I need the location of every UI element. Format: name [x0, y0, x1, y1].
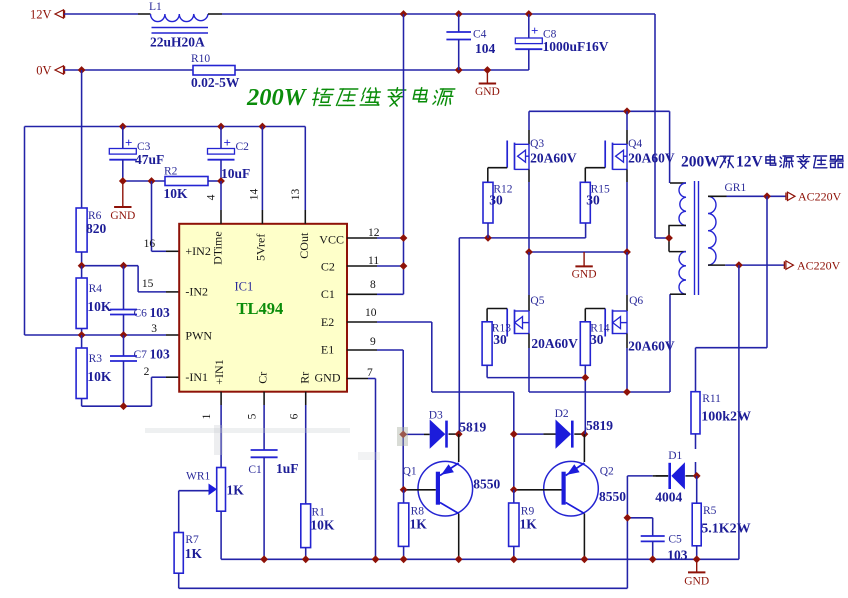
value label 30 of R14 [590, 332, 604, 347]
svg-text:R3: R3 [89, 353, 103, 365]
svg-text:103: 103 [667, 548, 688, 563]
svg-text:12: 12 [368, 227, 380, 239]
resistor R5 [692, 476, 716, 559]
svg-text:Q6: Q6 [629, 295, 643, 307]
svg-text:C6: C6 [134, 308, 148, 320]
transformer label 200W dual 12V transformer [681, 154, 843, 171]
value label 47uF [135, 152, 164, 167]
diode D2 [514, 408, 585, 449]
IC pin name VCC [319, 232, 344, 246]
wire AC220V top [727, 195, 787, 197]
resistor R4 [76, 266, 102, 335]
ground symbol near C3 [110, 181, 135, 222]
svg-text:Q5: Q5 [530, 295, 544, 307]
svg-text:12V: 12V [30, 8, 52, 22]
value label 5.1K2W [701, 522, 750, 537]
svg-text:+: + [531, 23, 538, 38]
wire pin16 net [152, 181, 180, 251]
svg-text:GR1: GR1 [725, 182, 747, 194]
junction D2 anode/pin10 riser [510, 430, 518, 438]
svg-text:+IN1: +IN1 [212, 359, 226, 384]
pin number 16 [144, 238, 156, 250]
value label 820 [86, 221, 107, 236]
svg-text:22uH20A: 22uH20A [150, 35, 205, 50]
IC pin name -IN1 [185, 370, 208, 384]
IC pin name GND [315, 371, 341, 385]
junction R2/C2/pin4 [217, 177, 225, 185]
junction row/C6 [120, 262, 128, 270]
svg-text:104: 104 [475, 41, 496, 56]
wire WR1 wiper to R7 [179, 491, 209, 533]
junction C5/return riser [624, 514, 632, 522]
svg-text:GND: GND [684, 576, 709, 588]
resistor R6 [76, 70, 102, 266]
value label 20A60V of Q5 [531, 336, 578, 351]
svg-text:1K: 1K [227, 483, 245, 498]
value label 10K of R4 [87, 299, 112, 314]
transistor Q2 [514, 434, 614, 559]
svg-text:D3: D3 [429, 410, 443, 422]
capacitor C1 [248, 450, 277, 559]
pin number 8 [370, 279, 376, 291]
IC pin name -IN2 [185, 284, 208, 298]
junction D2 cathode [581, 430, 589, 438]
diode D3 [403, 410, 459, 449]
svg-text:0.02-5W: 0.02-5W [191, 75, 240, 90]
junction R12 bottom [484, 234, 492, 242]
wire 12V drop to transformer center tap [655, 14, 669, 238]
svg-text:16: 16 [144, 238, 156, 250]
svg-text:C4: C4 [473, 29, 487, 41]
value label 8550 of Q2 [599, 489, 626, 504]
svg-text:8: 8 [370, 279, 376, 291]
svg-text:8550: 8550 [599, 489, 626, 504]
junction 0V/C4 [455, 66, 463, 74]
wire AC220V bottom [725, 264, 784, 266]
wire bottom rail [221, 558, 739, 560]
resistor R8 [398, 490, 424, 560]
svg-text:E2: E2 [321, 315, 334, 329]
junction Q1 base/R8 [400, 486, 408, 494]
IC pin name C2 [321, 259, 335, 273]
junction Q2 collector/rail [581, 555, 589, 563]
IC pin name E1 [321, 343, 334, 357]
resistor R10 [191, 53, 235, 75]
value label 10K [164, 186, 189, 201]
value label 5819 of D2 [586, 418, 613, 433]
wire R13R14 row to D2 [487, 378, 585, 435]
power port AC220V bottom [784, 259, 840, 273]
wire R7 to lower return rail [179, 476, 668, 588]
junction Q4 source [623, 248, 631, 256]
junction Q3 source [525, 248, 533, 256]
value label 1uF [276, 461, 299, 476]
svg-text:Q1: Q1 [403, 466, 417, 478]
junction C3/GND/R2 [119, 177, 127, 185]
svg-text:3: 3 [151, 323, 157, 335]
transistor Q5 [487, 252, 545, 392]
value label 10K of R3 [87, 369, 112, 384]
svg-text:R11: R11 [702, 393, 721, 405]
junction 12V/C8 [525, 10, 533, 18]
pin number 3 [151, 323, 157, 335]
junction C5/rail [649, 555, 657, 563]
IC pin name +IN1 [212, 359, 226, 384]
title 200W stabilized inverter power supply [246, 84, 455, 111]
junction 12V/C4 [455, 10, 463, 18]
svg-text:15: 15 [142, 278, 154, 290]
svg-text:1K: 1K [520, 517, 538, 532]
transistor Q3 [488, 111, 545, 252]
junction Q4 drain rail [623, 107, 631, 115]
svg-text:TL494: TL494 [237, 299, 284, 318]
svg-text:PWN: PWN [185, 328, 212, 342]
wire AC top riser to R11 [696, 196, 768, 391]
power port AC220V top [786, 190, 842, 204]
svg-text:Q3: Q3 [530, 138, 544, 150]
capacitor C2 [208, 127, 250, 182]
svg-text:+: + [224, 135, 231, 150]
svg-text:Q4: Q4 [628, 138, 642, 150]
pin number 15 [142, 278, 154, 290]
svg-text:WR1: WR1 [186, 471, 211, 483]
IC designator IC1 [235, 279, 254, 293]
svg-text:9: 9 [370, 336, 376, 348]
resistor R14 [580, 322, 609, 378]
svg-text:C1: C1 [321, 287, 335, 301]
value label 1K of WR1 [227, 483, 245, 498]
svg-text:5.1K2W: 5.1K2W [701, 522, 750, 537]
svg-text:5819: 5819 [459, 420, 486, 435]
svg-text:0V: 0V [36, 64, 51, 78]
wire AC bottom riser to rail [738, 265, 740, 559]
junction D3 cathode [455, 430, 463, 438]
svg-text:1K: 1K [185, 546, 203, 561]
value label 103 of C7 [150, 347, 171, 362]
svg-text:R2: R2 [164, 166, 178, 178]
value label 30 of R15 [586, 193, 600, 208]
svg-text:D1: D1 [668, 450, 682, 462]
wire drain rail Q3/Q4 [529, 111, 670, 183]
svg-text:30: 30 [493, 332, 507, 347]
svg-text:1K: 1K [410, 517, 428, 532]
pin number 12 [368, 227, 380, 239]
pin number 6 [289, 413, 301, 419]
svg-text:10: 10 [365, 307, 377, 319]
junction C6/C7 [120, 331, 128, 339]
wire row to pin15 [82, 266, 180, 292]
junction 0V/GND [484, 66, 492, 74]
svg-text:103: 103 [150, 305, 171, 320]
value label 1K of R8 [410, 517, 428, 532]
junction R9/rail [510, 555, 518, 563]
junction pin12/riser [400, 234, 408, 242]
wire COut riser pin13 [304, 127, 306, 224]
svg-text:2: 2 [144, 366, 150, 378]
value label 20A60V of Q6 [628, 339, 675, 354]
svg-text:Q2: Q2 [600, 466, 614, 478]
svg-text:10K: 10K [87, 369, 112, 384]
wire WR1 bottom to rail [220, 511, 222, 559]
value label 0.02-5W [191, 75, 240, 90]
resistor R7 [174, 533, 199, 574]
transistor Q1 [403, 434, 473, 559]
capacitor C8 [515, 14, 556, 70]
pin number 14 [249, 189, 261, 201]
resistor R1 [301, 504, 325, 559]
transformer GR1 secondary [708, 182, 746, 265]
pin number 13 [290, 189, 302, 201]
wire pin1 to WR1 [220, 392, 222, 468]
svg-text:GND: GND [315, 371, 341, 385]
svg-text:E1: E1 [321, 343, 334, 357]
wire 0V rail left [64, 69, 193, 71]
svg-text:820: 820 [86, 221, 107, 236]
svg-text:5819: 5819 [586, 418, 613, 433]
wire pin10 E2 to Q2 base [347, 322, 514, 490]
value label 30 of R13 [493, 332, 507, 347]
wire pin9 E1 to Q1 base [347, 350, 403, 490]
value label 1000uF16V [543, 39, 609, 54]
IC pin name Rr [298, 372, 312, 384]
watermark smudges [145, 425, 408, 460]
pin number 2 [144, 366, 150, 378]
svg-text:GND: GND [572, 269, 597, 281]
value label 8550 of Q1 [473, 477, 500, 492]
svg-text:4: 4 [206, 194, 218, 200]
svg-text:GND: GND [475, 86, 500, 98]
junction R1/rail [302, 555, 310, 563]
svg-text:20A60V: 20A60V [628, 339, 675, 354]
junction AC top output [763, 192, 771, 200]
junction R8/rail [400, 555, 408, 563]
inductor L1 [149, 1, 208, 33]
junction pin11/riser [400, 262, 408, 270]
wire Q5/Q6 source line [529, 294, 670, 392]
wire 5Vref riser pin14 [261, 127, 263, 224]
wire 0V rail right [235, 69, 529, 71]
svg-text:5: 5 [247, 413, 259, 419]
resistor R12 [483, 182, 513, 238]
transformer GR1 core [695, 181, 699, 295]
svg-text:DTime: DTime [211, 231, 225, 265]
IC pin name Cr [256, 372, 270, 384]
svg-text:200W: 200W [681, 154, 720, 171]
IC pin name C1 [321, 287, 335, 301]
junction rail/C2 [217, 123, 225, 131]
transistor Q4 [585, 111, 642, 252]
pin number 9 [370, 336, 376, 348]
power port 12V [30, 8, 65, 22]
svg-text:10uF: 10uF [221, 166, 250, 181]
svg-text:GND: GND [110, 210, 135, 222]
capacitor C7 [110, 335, 147, 406]
svg-text:8550: 8550 [473, 477, 500, 492]
op-amp controller U1 TL494 body [179, 224, 347, 392]
wire pin2 net [82, 377, 180, 406]
value label 20A60V of Q4 [628, 151, 675, 166]
junction rail/C3 [119, 123, 127, 131]
value label 20A60V of Q3 [530, 151, 577, 166]
svg-text:VCC: VCC [319, 232, 344, 246]
svg-text:-IN2: -IN2 [185, 284, 208, 298]
IC value TL494 [237, 299, 284, 318]
svg-text:C2: C2 [236, 141, 250, 153]
value label 100k2W [701, 410, 751, 425]
svg-text:11: 11 [368, 255, 379, 267]
value label 103 of C5 [667, 548, 688, 563]
svg-text:7: 7 [367, 367, 373, 379]
junction R5/rail [693, 555, 701, 563]
value label 10K of R1 [310, 518, 335, 533]
value label 104 [475, 41, 496, 56]
pin number 5 [247, 413, 259, 419]
junction 0V/R6 column [78, 66, 86, 74]
capacitor C4 [446, 14, 486, 70]
transistor Q6 [585, 252, 643, 392]
resistor R3 [76, 335, 102, 406]
value label 1K of R9 [520, 517, 538, 532]
pin number 7 [367, 367, 373, 379]
junction C7/pin2 row [120, 402, 128, 410]
svg-text:IC1: IC1 [235, 279, 254, 293]
transformer GR1 primary top [668, 183, 686, 252]
junction AC bottom output [735, 261, 743, 269]
wire VCC riser pin12/pin11/pin8 [347, 14, 404, 294]
value label 4004 [655, 490, 682, 505]
junction Q2 base/R9 [510, 486, 518, 494]
junction transformer center tap [665, 234, 673, 242]
junction R14/riser [581, 374, 589, 382]
junction rail/5Vref riser [259, 123, 267, 131]
value label 10uF [221, 166, 250, 181]
value label 1K of R7 [185, 546, 203, 561]
svg-text:30: 30 [590, 332, 604, 347]
svg-text:30: 30 [586, 193, 600, 208]
resistor R9 [509, 490, 535, 560]
svg-text:+IN2: +IN2 [185, 244, 210, 258]
IC pin name 5Vref [254, 234, 268, 261]
capacitor C5 [627, 518, 682, 560]
junction pin7-riser/rail [372, 555, 380, 563]
ground symbol bottom right [684, 559, 709, 587]
IC pin name COut [297, 232, 311, 259]
svg-text:200W: 200W [246, 84, 308, 111]
svg-text:C5: C5 [668, 534, 682, 546]
svg-text:10K: 10K [87, 299, 112, 314]
junction C1/rail [260, 555, 268, 563]
svg-text:103: 103 [150, 347, 171, 362]
svg-text:+: + [125, 135, 132, 150]
wire 12V feed [64, 13, 151, 15]
value label 30 of R12 [489, 193, 503, 208]
junction Q1 collector/rail [455, 555, 463, 563]
svg-text:10K: 10K [310, 518, 335, 533]
resistor R15 [580, 182, 610, 223]
wire pin11 [347, 265, 404, 267]
svg-text:14: 14 [249, 189, 261, 201]
ground symbol near C8 [475, 70, 500, 98]
IC pin name PWN [185, 328, 212, 342]
pin number 10 [365, 307, 377, 319]
junction R4/R3 [78, 331, 86, 339]
diode D1 [656, 450, 697, 490]
svg-text:12V: 12V [736, 154, 764, 171]
wire DTime riser pin4 [220, 181, 222, 224]
svg-text:10K: 10K [164, 186, 189, 201]
svg-text:R5: R5 [703, 505, 717, 517]
svg-text:AC220V: AC220V [798, 190, 842, 204]
svg-text:D2: D2 [555, 408, 569, 420]
svg-text:47uF: 47uF [135, 152, 164, 167]
svg-text:1: 1 [201, 413, 213, 419]
capacitor C6 [110, 266, 147, 335]
wire pin7 GND down [347, 379, 376, 560]
svg-text:20A60V: 20A60V [531, 336, 578, 351]
svg-text:-IN1: -IN1 [185, 370, 208, 384]
svg-text:AC220V: AC220V [797, 259, 841, 273]
svg-text:13: 13 [290, 189, 302, 201]
wire R12R15 gate-drive row [459, 223, 585, 434]
svg-text:100k2W: 100k2W [701, 410, 751, 425]
ground symbol mid bridge [572, 252, 597, 281]
svg-text:L1: L1 [149, 1, 162, 13]
svg-text:C7: C7 [134, 349, 148, 361]
pin number 1 [201, 413, 213, 419]
resistor R11 [691, 392, 721, 476]
svg-text:COut: COut [297, 232, 311, 259]
wire pin6 to R1 [305, 392, 307, 504]
svg-text:4004: 4004 [655, 490, 682, 505]
svg-text:6: 6 [289, 413, 301, 419]
power port 0V [36, 64, 64, 78]
svg-text:20A60V: 20A60V [628, 151, 675, 166]
junction R6/R4 [78, 262, 86, 270]
svg-text:R4: R4 [89, 283, 103, 295]
value label 22uH20A [150, 35, 205, 50]
svg-text:Cr: Cr [256, 372, 270, 384]
IC pin name E2 [321, 315, 334, 329]
resistor R2 [123, 166, 221, 186]
svg-text:R7: R7 [185, 534, 199, 546]
junction R2/pin16 drop [148, 177, 156, 185]
value label 103 of C6 [150, 305, 171, 320]
svg-text:R10: R10 [191, 53, 210, 65]
capacitor C3 [109, 127, 150, 182]
IC pin name DTime [211, 231, 225, 265]
pin number 4 [206, 194, 218, 200]
svg-text:30: 30 [489, 193, 503, 208]
wire upper-left rail [25, 127, 306, 336]
IC pin name +IN2 [185, 244, 210, 258]
junction D3 anode/pin9 riser [399, 431, 407, 439]
potentiometer WR1 [186, 468, 226, 512]
pin number 11 [368, 255, 379, 267]
svg-text:5Vref: 5Vref [254, 234, 268, 261]
svg-text:20A60V: 20A60V [530, 151, 577, 166]
svg-text:C1: C1 [248, 464, 262, 476]
transformer GR1 primary bottom [669, 252, 686, 295]
svg-text:Rr: Rr [298, 372, 312, 384]
svg-text:C2: C2 [321, 259, 335, 273]
resistor R13 [482, 322, 511, 378]
junction Q6 source [623, 388, 631, 396]
junction 12V/VCC riser [400, 10, 408, 18]
junction D1 anode/R11/R5 [693, 472, 701, 480]
wire pin3 row [25, 334, 180, 336]
wire pin5 to C1 [263, 392, 265, 450]
wire 12V rail [208, 13, 655, 15]
